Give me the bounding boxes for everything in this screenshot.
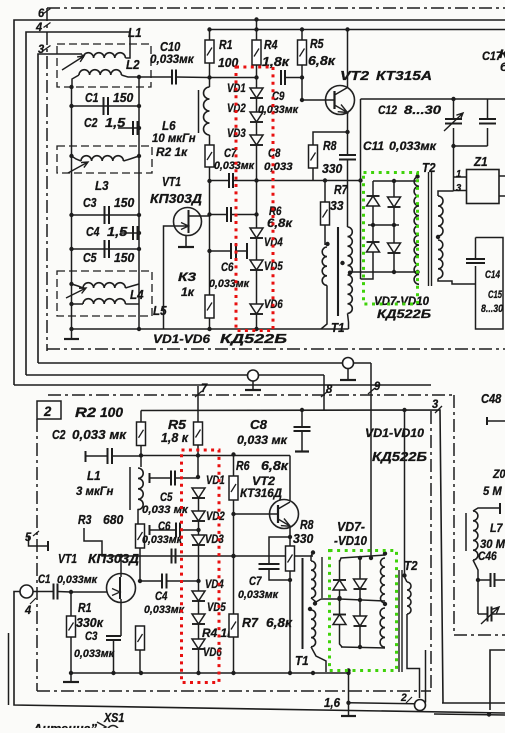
svg-text:R5: R5 [310,36,324,51]
supply rail bus y29.5 [210,29,505,31]
T1 unit2 primary mid taps [313,601,317,605]
svg-text:6: 6 [38,6,44,20]
transformer T2 secondary upper [438,196,443,236]
capacitor C1 [104,97,109,115]
green dotted box around VD7-VD10 unit1 [364,173,418,305]
pin tick 4 [44,23,51,28]
svg-text:VD2: VD2 [206,509,225,523]
svg-text:КТ315А: КТ315А [376,68,432,83]
resistor R5 [298,40,307,65]
svg-text:C11: C11 [363,139,384,153]
bridge col1 mid wire [372,206,374,242]
svg-text:R8: R8 [323,138,337,153]
bus to right edge [454,98,505,100]
capacitor C6 unit2 [149,525,151,535]
bus corner to VT2 collector [289,456,291,501]
svg-text:6,8к: 6,8к [266,615,293,630]
transistor VT1 body [174,208,202,236]
svg-text:XS1: XS1 [103,710,124,725]
dashed box around L4 L5 [57,271,152,316]
interconnect line C8 node [300,408,304,412]
VT2 unit2 emitter lead [278,519,290,527]
R1 bottom lead [70,637,72,673]
L1 to R3 wire [137,509,139,524]
capacitor C in emitter line [339,155,356,160]
wire C3 row [72,214,140,216]
svg-text:T1: T1 [331,320,345,335]
wire 9 into bridge [369,556,373,560]
diode chain top node [254,75,258,79]
Z1 right pins [499,175,505,177]
T1 primary bottom to ground bus [321,285,327,329]
jack XW1 stem [252,381,254,390]
R4 bottom lead [139,650,141,673]
wire pin3 into L1 [38,53,78,55]
svg-text:К3: К3 [178,270,196,284]
wire C7 to chain [233,180,257,182]
transistor VT1 unit2 body [107,574,136,603]
bridge col1 upper wire [372,181,374,196]
svg-text:150: 150 [114,195,135,210]
T2 secondary mid tap [436,235,440,239]
R5 bottom to base node [301,65,303,100]
svg-text:R2: R2 [75,404,96,420]
svg-text:1: 1 [456,169,462,180]
svg-text:С46: С46 [478,549,497,563]
svg-text:L5: L5 [153,303,167,318]
wire VD4-VD5 unit2 [198,601,200,614]
diode VD8 [388,197,401,207]
diode VD4 [250,228,263,238]
svg-text:R6: R6 [236,458,250,473]
pin tick 3 right [435,406,442,413]
R1 top lead [209,30,211,41]
wire VD5-VD6 unit2 [198,624,200,639]
svg-text:0,033мк: 0,033мк [150,52,195,66]
capacitor C2 unit2 [85,451,87,462]
svg-text:330к: 330к [76,615,104,630]
wire 7 vertical [197,386,199,422]
bridge unit2 col1 mid [339,590,341,615]
jack XW1 bar [245,389,261,391]
inductor L3 [81,156,123,161]
ground symbol GND1 [71,329,73,339]
transformer T2 unit2 primary upper [381,558,386,603]
resistor R4 unit2 [136,626,145,650]
chain bottom boundary of unit 2 [37,690,431,692]
R4 top lead to supply [256,20,258,41]
wire C9 to R5 column [285,77,302,79]
svg-text:330: 330 [322,161,343,176]
svg-text:C7: C7 [249,574,263,588]
R3 bottom lead [209,318,211,329]
svg-text:б: б [500,60,505,74]
T2 unit2 core [398,570,400,672]
ground symbol under VT1 [178,246,194,248]
junction on bottom right line [487,712,491,716]
wire VD4-VD5 [256,238,258,260]
svg-text:10 мкГн: 10 мкГн [152,131,196,145]
wire VD1-VD2 unit2 [198,498,200,511]
R5 bottom lead [197,445,199,477]
L3 right lead [123,156,139,161]
shield box bottom right corner [490,650,505,710]
svg-text:Антенна”: Антенна” [32,721,97,728]
svg-text:8: 8 [326,382,332,396]
wire VD6 to ground bus [256,314,258,329]
chain boundary top of unit 2 [48,394,454,396]
capacitor trimmer aux [478,613,487,615]
resistor R8 [309,145,318,168]
bottom frame line to wire 9 [38,362,371,364]
svg-text:0,033: 0,033 [264,161,293,173]
L4 right lead [125,284,139,288]
T2 unit2 secondary [407,582,411,614]
diode VD1 [250,88,263,98]
wire VD5-VD6 [256,270,258,304]
antenna arrow [97,722,106,732]
wire node to R3 [209,251,211,295]
svg-text:5 М: 5 М [483,484,503,498]
capacitor C14 on shield edge [466,259,485,263]
resistor R2 unit2 [137,422,146,446]
svg-text:2: 2 [400,692,407,704]
capacitor C46 [478,579,490,581]
R8 unit2 bottom lead [289,571,291,673]
svg-text:R8: R8 [300,517,314,532]
svg-text:150: 150 [113,90,134,105]
diode VD2 [250,112,263,122]
resistor R8 unit2 [286,546,295,571]
output wire 1,6V [349,703,415,704]
svg-text:C4: C4 [155,589,168,603]
svg-text:0,033мк: 0,033мк [144,604,185,616]
capacitor C4 [133,226,138,240]
svg-text:VT1: VT1 [162,174,181,189]
diode VD10 unit2 [354,616,367,626]
svg-text:3: 3 [456,183,462,194]
svg-text:C12: C12 [378,103,397,117]
svg-text:680: 680 [103,512,124,527]
aux coil bottom lead [473,560,478,580]
svg-text:R7: R7 [334,182,348,197]
VT2 unit2 base lead [234,513,279,515]
resistor R2 [205,145,214,167]
T1 secondary taps [340,261,344,265]
R2 bottom lead [140,446,142,468]
variable arrow for L1 [62,56,84,70]
T2 secondary bottom lead [438,278,476,284]
L2 left lead down to node A [72,75,79,87]
capacitor C6 coupling [210,250,232,252]
svg-text:6,8к: 6,8к [308,53,337,68]
wire L6 to R2 [209,135,211,145]
R7 unit2 bottom lead [233,637,235,673]
svg-text:VD5: VD5 [207,600,226,614]
chain boundary bottom of unit 1 [47,348,505,350]
svg-text:C1: C1 [85,90,99,105]
svg-text:C5: C5 [160,490,173,504]
transformer T1 secondary winding [348,227,353,313]
inductor L1 unit2 core [129,467,131,510]
svg-text:T2: T2 [404,558,418,573]
svg-text:VD4: VD4 [205,577,224,591]
VT1 unit2 drain lead up [120,556,122,577]
resistor R1 [205,40,214,63]
wire R6-R7 column [233,514,235,614]
transformer T2 secondary lower [438,240,443,278]
bridge unit2 col1 upper [339,560,341,580]
svg-text:6,8к: 6,8к [261,458,290,473]
svg-text:1,5: 1,5 [107,224,128,239]
green box bottom dot [346,671,350,675]
chain boundary top of unit 1 [47,7,505,9]
inductor L1 unit2 [138,468,143,510]
capacitor C8 unit2 to ground stub [301,410,303,426]
VT1 channel bar [188,210,190,233]
interconnect bus line y410 with pin 3 drop [141,410,443,703]
output jack unit2 [415,700,426,711]
bottom frame line from pin 6 loop [14,384,431,386]
transistor VT2 body [326,86,355,115]
capacitor C7 in drain coupling wire [210,180,230,182]
bridge unit2 bottom bus [341,647,385,648]
wire Z1 pin1 [453,146,455,177]
svg-text:150: 150 [114,250,135,265]
svg-text:C2: C2 [52,427,66,442]
wire cap to chain mid [231,214,257,216]
T2 unit2 primary mid tap [383,602,387,606]
aux trimmer arrow [481,607,499,624]
capacitor C5 unit2 [149,473,151,483]
wire Z1 pin3 [453,177,455,191]
diode VD2 unit2 [192,511,205,521]
svg-text:КД522Б: КД522Б [220,331,287,346]
svg-text:0,033мк: 0,033мк [389,139,437,153]
emitter wire down [347,113,349,156]
svg-text:КД522Б: КД522Б [372,449,427,464]
svg-text:0,033мк: 0,033мк [238,589,279,601]
bridge unit2 col2 mid [359,589,361,616]
wire VD6 to ground bus unit2 [198,649,200,673]
bottom shield line [14,592,505,714]
jack XW2 bar [340,379,356,381]
svg-text:4: 4 [35,20,42,34]
feed line to T2 secondary top [404,410,406,576]
svg-text:Z1: Z1 [473,154,487,169]
bridge unit2 top bus [340,555,386,562]
inductor L4 [83,283,125,288]
second output line [425,650,427,703]
svg-text:2: 2 [43,403,51,419]
svg-text:C5: C5 [83,250,97,265]
wire VD3 to VD4 with C4 node [198,545,200,591]
diode VD3 unit2 [192,535,205,545]
svg-text:КД522Б: КД522Б [377,307,432,321]
jack XW1 on frame line [248,370,259,381]
red dotted box around VD1-VD6 unit1 [236,67,273,331]
svg-text:0,033мк: 0,033мк [209,278,250,290]
wire C2 stub [118,127,139,129]
antenna jack XS1 input circle [20,585,33,598]
wire cap branch bottom [454,145,488,147]
bridge mid bus [368,224,399,226]
top bus from VT2 area [361,98,454,100]
svg-text:R2 1к: R2 1к [156,145,188,159]
T1 core line [337,227,339,316]
R3 bottom to C4 node [139,548,141,581]
green dotted box around VD7-VD10 unit2 [330,551,397,671]
VT1 unit2 gate arrow [112,589,120,596]
jack XW2 stem [347,369,349,381]
R8 bottom lead [312,168,314,181]
svg-text:100: 100 [100,404,123,420]
pin 7 tick and label [195,391,202,397]
diode VD8 unit2 [354,579,367,589]
svg-text:T1: T1 [295,653,309,668]
svg-text:C1: C1 [38,572,51,586]
svg-text:33: 33 [330,198,344,213]
shield box with C14 C15 [476,238,504,330]
capacitor C48 stub [486,417,488,425]
svg-text:КТ316Д: КТ316Д [240,486,282,500]
diode VD4 unit2 [192,591,205,601]
output line bottom right [442,702,505,704]
resistor R3 [205,295,214,318]
svg-text:VD7-VD10: VD7-VD10 [374,294,429,308]
svg-text:VD1-VD6: VD1-VD6 [153,332,210,346]
T1 unit2 primary upper [311,561,316,598]
VT2 emitter lead with arrow [335,105,348,113]
junction node B top [137,75,141,79]
aux coil core [465,513,467,551]
wire drain bus to T1 top [311,550,315,554]
aux coil top lead [473,508,500,511]
choke L6 core line [198,90,200,133]
svg-text:-VD10: -VD10 [334,533,368,548]
VT1 drain lead [189,215,210,217]
svg-text:C4: C4 [86,224,100,239]
diode VD5 unit2 [192,614,205,624]
T1 unit2 primary top lead [311,553,313,562]
filter Z1 box [467,170,500,204]
svg-text:1к: 1к [181,285,195,299]
resistor R7 unit2 [229,614,238,637]
VT1 source wire down to ground bus [164,226,174,329]
R6 bottom to base [233,500,235,514]
transformer T1 unit2 core [302,558,304,649]
svg-text:C8: C8 [250,417,268,432]
capacitor C1 unit2 [33,591,54,593]
ground bus of unit 1 [72,328,349,330]
svg-text:8...30: 8...30 [404,103,441,117]
wire 9 vertical drop [370,363,372,558]
wire emitter node to R8 top [313,132,348,145]
bottom right line with junction [434,714,505,715]
resistor R7 top lead [323,178,327,182]
ground symbol unit2 [70,673,72,682]
main bus y455 [141,455,290,457]
inductor L5 [83,299,125,304]
diode VD6 unit2 [192,639,205,649]
svg-text:6,8к: 6,8к [267,216,293,230]
bridge unit2 col2 lower [359,626,361,647]
T2 unit2 secondary bottom lead [407,614,420,698]
svg-text:R7: R7 [242,615,259,630]
svg-text:L7: L7 [490,521,504,535]
diode VD9 [367,242,380,252]
trimmer capacitor C12 branch [453,99,455,118]
VT2 collector lead [335,30,348,96]
capacitor C3 unit2 [120,630,122,636]
dashed box around L1 L2 [57,44,151,87]
coupling capacitor in drain wire [172,549,176,564]
transformer T2 unit2 primary lower [380,608,385,647]
bridge col2 lower wire [393,253,395,272]
antenna connector circle [108,726,119,733]
wire 6 feed line [14,20,505,385]
svg-text:КП303Д: КП303Д [88,551,140,566]
svg-text:Z0: Z0 [492,467,505,481]
svg-text:R1: R1 [78,600,92,615]
T1 secondary bottom lead [348,313,349,329]
svg-text:0,033мк: 0,033мк [142,534,183,546]
svg-text:L4: L4 [130,287,144,302]
VT2 unit2 base bar [277,505,279,523]
resistor R1 unit2 top lead [70,592,72,616]
VT1 unit2 source lead [120,599,122,630]
svg-text:VD1-VD10: VD1-VD10 [365,426,424,440]
chain vertical right of unit 2 [430,411,432,691]
resistor R6 unit2 [233,455,235,477]
pin tick 9 [368,388,375,394]
jack XW2 on frame line [343,358,354,369]
capacitor C8s in second coupling wire [210,214,228,216]
svg-text:4: 4 [24,603,31,617]
svg-text:1,8 к: 1,8 к [161,430,189,445]
svg-text:R4: R4 [264,37,278,52]
wire C4 stub [120,232,139,234]
bridge top bus [373,180,418,182]
svg-text:VD1: VD1 [206,473,225,487]
chain corner to right edge [454,634,505,636]
svg-text:C48: C48 [481,391,502,406]
bottom frame line to wire 8 [26,374,324,376]
VT2 unit2 collector lead [278,502,290,509]
wire VD2-VD3 unit2 [198,521,200,535]
diode VD9 unit2 [333,615,346,625]
pin tick 8 [321,391,328,397]
svg-text:К: К [499,47,505,61]
resistor R5 unit2 [194,422,203,445]
svg-text:С3: С3 [85,629,98,643]
capacitor C3 [105,206,110,224]
wire R4 bottom to chain [256,65,258,88]
capacitor C2 [133,121,138,135]
ground drop at output [348,671,350,717]
pin tick 6 [44,9,51,14]
wire 8 vertical drop [323,375,325,410]
svg-text:VT2: VT2 [340,68,370,83]
bridge bottom bus [350,271,418,273]
node A vertical rail [71,87,73,329]
bridge col2 upper wire [393,181,395,197]
svg-text:0,033 мк: 0,033 мк [72,427,128,442]
capacitor C13 branch [487,99,489,118]
svg-text:0,033мк: 0,033мк [74,648,115,660]
aux trimmer branch [477,580,479,614]
resistor R1 unit2 [67,616,76,637]
